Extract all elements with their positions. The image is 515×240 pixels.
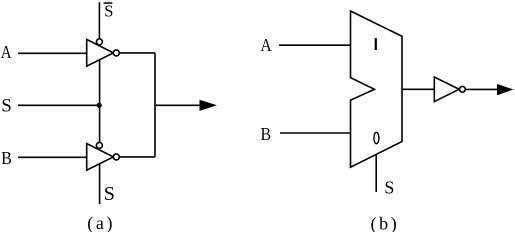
overline of S-bar: [104, 2, 113, 4]
wire B input to U2: [18, 156, 87, 158]
U2 output bubble: [113, 154, 119, 160]
svg-text:B: B: [261, 124, 272, 144]
wire mux output to inverter U4: [402, 88, 434, 90]
inverter U4 (triangle): [434, 77, 459, 102]
svg-text:(b): (b): [371, 214, 400, 233]
U2 enable bubble (S input from junction): [96, 142, 102, 148]
wire U1 lower enable pin down through junction to U2 enable bubble: [99, 60, 101, 143]
U1 enable bubble (S-bar input): [96, 39, 102, 45]
output arrowhead (diagram a): [200, 100, 218, 111]
wire output of diagram b: [465, 88, 498, 90]
wire U2 lower enable pin (S, bottom): [99, 164, 101, 204]
U4 output bubble: [460, 86, 466, 92]
wire S select input: [18, 104, 100, 106]
junction dot (node S): [97, 103, 102, 108]
svg-text:S: S: [104, 183, 115, 205]
multiplexer U3 body: [351, 11, 403, 167]
wire B to mux input 0: [280, 132, 351, 134]
svg-text:B: B: [1, 148, 12, 168]
svg-text:(a): (a): [87, 213, 115, 232]
wire A to mux input 1: [279, 44, 351, 46]
tri-state inverter U1 (triangle): [87, 39, 114, 66]
wire U1 output to bus: [119, 52, 155, 54]
svg-text:A: A: [261, 35, 272, 55]
svg-text:S: S: [1, 96, 12, 117]
svg-text:A: A: [1, 42, 12, 62]
wire S select pin of mux: [375, 155, 377, 193]
wire output of diagram a: [155, 104, 201, 106]
U1 output bubble: [113, 50, 119, 56]
wire output bus (vertical): [154, 53, 156, 157]
wire U2 output to bus: [119, 156, 155, 158]
wire A input to U1: [18, 52, 87, 54]
label 0 (mux data input 0): [374, 132, 379, 143]
svg-text:S: S: [384, 178, 394, 198]
wire S-bar enable (vertical, top): [98, 2, 100, 38]
svg-text:S: S: [104, 1, 113, 20]
output arrowhead (diagram b): [497, 84, 514, 95]
tri-state inverter U2 (triangle): [87, 144, 114, 171]
label 1 (mux data input 1): [375, 38, 377, 50]
